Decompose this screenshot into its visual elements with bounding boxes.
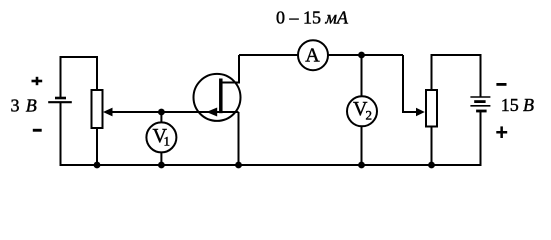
wire: V1 bottom to bottom wire [160,152,162,165]
transistor VT1 collector lead [221,55,239,83]
battery GB1 3V: short thick plate [55,97,66,100]
junction dot (transistor bottom) [235,162,242,169]
transistor VT1 emitter arrow [206,108,217,117]
wire: dot down to V2 [361,55,363,97]
transistor VT1 base bar [219,79,223,114]
svg-text:В: В [26,96,37,116]
svg-text:0 – 15 мА: 0 – 15 мА [276,8,349,28]
svg-text:3: 3 [11,96,20,116]
bottom wire [61,103,481,165]
R2 wiper arrow [416,108,425,117]
svg-text:A: A [305,45,320,67]
wire: R1 bottom to bottom wire [96,129,98,165]
svg-text:1: 1 [164,134,171,149]
label - (right battery) [496,83,506,86]
potentiometer R2 body [426,90,437,127]
battery GB2 15V plate 1 long thin [470,96,490,98]
junction dot (V1 bottom) [158,162,165,169]
junction dot (R1 bottom) [94,162,101,169]
svg-text:2: 2 [366,107,373,122]
junction dot (V2 bottom) [358,162,365,169]
wire: R2 bottom to bottom wire [431,127,433,166]
R1 wiper arrow [103,108,113,117]
wire: V2 bottom to bottom wire [361,126,363,165]
potentiometer R1 body [92,90,103,128]
junction dot (top, V2 branch) [358,52,365,59]
label - (left battery) [33,129,42,132]
wire: top wire corner down to R2 wiper [403,55,416,112]
battery GB2 15V plate 2 short thick [474,100,485,103]
transistor VT1 circle [194,74,241,121]
svg-text:15: 15 [501,95,519,115]
label + (left battery) [32,77,43,85]
wire: left loop top [61,57,98,97]
voltmeter V1 circle [146,122,176,152]
svg-text:В: В [523,95,534,115]
label + (right battery) [496,126,507,138]
ammeter A circle [298,40,328,70]
battery GB2 15V plate 4 short thick [476,110,487,113]
wire: main top [239,54,403,56]
battery GB1 3V: long thin plate [48,101,72,103]
junction dot (R2 bottom) [428,162,435,169]
wire: transistor down to bottom wire [238,112,240,165]
wire: dot to V1 [160,112,162,124]
wire: R2 top to battery top [432,55,481,97]
battery GB2 15V plate 3 long thin [470,105,490,107]
wire: wiper to transistor gate [112,111,239,113]
junction dot (V1 top) [158,109,165,116]
voltmeter V2 circle [347,96,377,126]
